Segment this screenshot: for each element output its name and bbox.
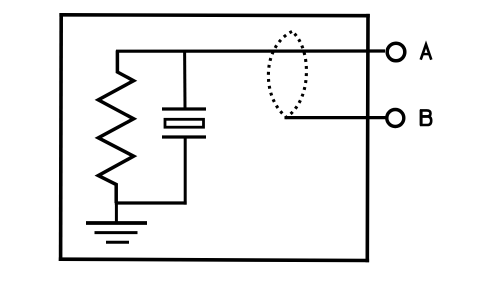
- resistor R: [98, 51, 133, 204]
- wire B: [285, 116, 387, 119]
- enclosure box: [61, 15, 368, 261]
- ground: [86, 223, 147, 242]
- crystal Y1: [162, 51, 206, 205]
- wire top (node A net): [116, 49, 385, 52]
- label B: [420, 110, 431, 126]
- dotted ellipse (coupling region): [268, 32, 306, 118]
- wire ground stem: [115, 203, 118, 222]
- terminal A: [387, 43, 405, 61]
- terminal B: [387, 110, 404, 127]
- label A: [421, 44, 432, 59]
- wire bottom: [115, 201, 187, 204]
